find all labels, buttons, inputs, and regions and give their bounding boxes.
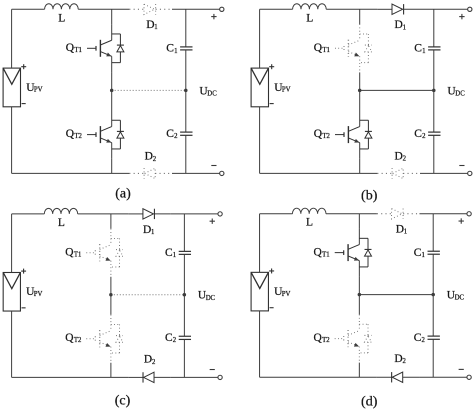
wire right rail lower (b): [433, 135, 435, 173]
capacitor C2 (c): [179, 336, 191, 339]
wire bottom-left (b): [260, 172, 378, 174]
diode D2 (a): [129, 168, 172, 178]
svg-text:L: L: [306, 12, 313, 24]
svg-text:2: 2: [403, 358, 407, 365]
svg-text:L: L: [58, 217, 65, 229]
capacitor C1 (d): [428, 251, 440, 254]
wire top-left (a): [12, 8, 45, 10]
wire left rail upper (c): [11, 214, 13, 273]
output terminal top (b): [468, 7, 472, 11]
transistor Q_T2 with anti-parallel diode (c): [86, 315, 123, 363]
svg-text:(c): (c): [115, 393, 131, 408]
wire left rail lower (c): [11, 311, 13, 377]
wire middle link (b): [360, 89, 434, 91]
transistor Q_T1 with anti-parallel diode (b): [335, 24, 372, 72]
wire top-left (c): [12, 213, 45, 215]
svg-text:T1: T1: [322, 47, 330, 54]
label C1 (c): [165, 247, 176, 259]
label U_PV (b): [274, 82, 290, 94]
inductor L (c): [44, 208, 77, 214]
output plus sign (d): [459, 218, 464, 223]
label U_DC (a): [199, 85, 217, 97]
wire right rail mid (a): [185, 50, 187, 132]
label Q_T2 (d): [313, 332, 330, 344]
svg-text:1: 1: [404, 229, 407, 236]
output terminal top (a): [220, 7, 224, 11]
label Q_T1 (d): [313, 247, 329, 259]
PV minus sign (b): [270, 103, 274, 105]
output terminal top (d): [467, 212, 471, 216]
node dot mid (d): [358, 293, 361, 296]
svg-text:1: 1: [174, 48, 177, 55]
svg-text:D: D: [146, 19, 154, 31]
node dot right U_DC (b): [432, 89, 436, 93]
svg-text:DC: DC: [207, 91, 217, 98]
label C2 (a): [166, 128, 178, 140]
PV minus sign (d): [270, 307, 274, 309]
wire middle link (d): [359, 294, 433, 296]
svg-text:1: 1: [422, 252, 425, 259]
svg-text:PV: PV: [34, 87, 43, 94]
PV plus sign (c): [21, 269, 26, 274]
label D2 (b): [395, 151, 407, 163]
label D2 (c): [144, 354, 155, 366]
PV plus sign (a): [21, 64, 26, 69]
svg-text:Q: Q: [66, 42, 75, 54]
PV plus sign (b): [269, 64, 274, 69]
svg-text:Q: Q: [65, 332, 74, 344]
capacitor C1 (b): [428, 47, 440, 50]
diode D1 (c): [128, 209, 170, 219]
svg-text:1: 1: [403, 24, 406, 31]
PV plus sign (d): [269, 268, 274, 273]
PV minus sign (a): [22, 103, 26, 105]
wire middle rail top (d): [358, 214, 360, 229]
svg-text:T1: T1: [74, 47, 82, 54]
transistor Q_T2 with anti-parallel diode (d): [335, 315, 372, 363]
svg-text:T1: T1: [322, 252, 330, 259]
wire right rail lower (d): [432, 339, 434, 377]
output plus sign (b): [459, 14, 464, 19]
svg-text:D: D: [395, 151, 403, 163]
wire right rail upper (a): [185, 9, 187, 47]
label U_DC (d): [447, 290, 465, 302]
transistor Q_T1 with anti-parallel diode (a): [87, 24, 124, 72]
node dot mid (a): [110, 89, 114, 93]
svg-text:D: D: [144, 354, 152, 366]
PV source U_PV (c): [3, 272, 20, 311]
wire middle rail bottom (a): [111, 159, 113, 174]
wire top-right (b): [420, 8, 468, 10]
diode D2 (d): [377, 372, 420, 382]
node dot right U_DC (a): [184, 89, 188, 93]
output terminal top (c): [218, 212, 222, 216]
label U_PV (c): [26, 286, 42, 298]
node dot mid (c): [109, 293, 112, 296]
capacitor C1 (c): [179, 251, 191, 254]
svg-text:C: C: [414, 128, 422, 140]
svg-text:D: D: [396, 224, 404, 236]
wire left rail lower (d): [259, 311, 261, 377]
inductor L (a): [45, 4, 79, 10]
svg-text:Q: Q: [65, 247, 74, 259]
label C2 (c): [165, 332, 176, 344]
transistor Q_T1 with anti-parallel diode (c): [86, 229, 123, 277]
wire middle rail top (b): [359, 9, 361, 24]
wire bottom-right (a): [172, 172, 220, 174]
svg-text:DC: DC: [206, 295, 216, 302]
svg-text:L: L: [306, 217, 313, 229]
wire right rail upper (c): [183, 214, 185, 251]
svg-text:1: 1: [154, 24, 157, 31]
label C1 (b): [414, 43, 425, 55]
svg-text:L: L: [58, 12, 65, 24]
output minus sign (d): [459, 368, 464, 370]
wire top-right (d): [419, 213, 467, 215]
svg-text:1: 1: [422, 48, 425, 55]
svg-text:T2: T2: [322, 337, 330, 344]
wire middle link (c): [111, 294, 184, 296]
svg-text:T2: T2: [74, 337, 81, 344]
wire middle rail bottom (b): [359, 159, 361, 174]
wire right rail upper (d): [432, 214, 434, 251]
node dot mid (b): [358, 89, 362, 93]
diode D1 (d): [377, 209, 420, 219]
label D1 (b): [395, 19, 407, 31]
label C1 (a): [166, 43, 177, 55]
output terminal bottom (b): [468, 171, 472, 175]
wire right rail mid (c): [183, 254, 185, 336]
svg-text:C: C: [166, 128, 174, 140]
wire right rail lower (c): [183, 339, 185, 377]
svg-text:Q: Q: [66, 128, 75, 140]
diode D2 (b): [377, 168, 420, 178]
PV source U_PV (b): [251, 68, 268, 107]
svg-text:2: 2: [173, 337, 176, 344]
svg-text:2: 2: [422, 337, 426, 344]
svg-text:D: D: [394, 353, 402, 365]
wire top-mid (d): [326, 213, 377, 215]
diode D2 (c): [128, 372, 170, 382]
PV source U_PV (d): [251, 272, 268, 311]
wire top-mid (a): [78, 8, 129, 10]
svg-text:PV: PV: [34, 291, 43, 298]
svg-text:C: C: [165, 247, 173, 259]
PV source U_PV (a): [3, 68, 20, 107]
svg-text:C: C: [414, 43, 422, 55]
output plus sign (a): [211, 14, 216, 19]
svg-text:T2: T2: [322, 133, 330, 140]
svg-text:C: C: [166, 43, 174, 55]
node dot right U_DC (c): [183, 293, 186, 296]
capacitor C2 (d): [428, 336, 440, 339]
label U_PV (a): [26, 82, 42, 94]
transistor Q_T1 with anti-parallel diode (d): [335, 229, 372, 277]
wire middle rail top (a): [111, 9, 113, 24]
label U_DC (c): [198, 290, 216, 302]
wire middle rail bottom (d): [358, 363, 360, 378]
wire left rail upper (d): [259, 214, 261, 273]
label U_PV (d): [274, 286, 290, 298]
wire middle rail bottom (c): [110, 363, 112, 378]
svg-text:2: 2: [403, 156, 407, 163]
label C2 (d): [414, 332, 426, 344]
output minus sign (a): [211, 165, 216, 167]
svg-text:2: 2: [153, 156, 157, 163]
svg-text:T1: T1: [74, 252, 81, 259]
svg-text:T2: T2: [74, 133, 82, 140]
svg-text:C: C: [414, 332, 422, 344]
label Q_T1 (c): [65, 247, 81, 259]
wire bottom-left (a): [12, 172, 130, 174]
capacitor C2 (a): [180, 132, 192, 135]
wire right rail mid (b): [433, 50, 435, 132]
label Q_T2 (c): [65, 332, 81, 344]
wire right rail upper (b): [433, 9, 435, 47]
label U_DC (b): [447, 85, 465, 97]
wire right rail mid (d): [432, 254, 434, 336]
wire top-mid (b): [326, 8, 377, 10]
wire bottom-right (d): [419, 376, 467, 378]
svg-text:1: 1: [151, 229, 154, 236]
PV minus sign (c): [22, 307, 26, 309]
svg-text:(b): (b): [361, 188, 378, 203]
inductor L (d): [292, 208, 325, 214]
label Q_T1 (a): [66, 42, 82, 54]
wire middle rail mid (c): [110, 277, 112, 315]
wire bottom-left (d): [260, 376, 377, 378]
label D1 (d): [396, 224, 407, 236]
svg-text:Q: Q: [314, 42, 323, 54]
wire top-mid (c): [78, 213, 129, 215]
svg-text:1: 1: [173, 252, 176, 259]
wire middle rail mid (d): [358, 277, 360, 315]
output plus sign (c): [210, 218, 215, 223]
transistor Q_T2 with anti-parallel diode (a): [87, 111, 124, 159]
wire left rail upper (b): [259, 9, 261, 68]
wire bottom-right (c): [171, 376, 218, 378]
label D2 (d): [394, 353, 406, 365]
output minus sign (b): [459, 165, 464, 167]
node dot right U_DC (d): [431, 293, 434, 296]
wire middle link (a): [112, 89, 186, 91]
wire top-right (c): [171, 213, 218, 215]
svg-text:2: 2: [152, 359, 155, 366]
diode D1 (b): [377, 4, 420, 14]
wire top-left (b): [260, 8, 293, 10]
svg-text:Q: Q: [314, 128, 323, 140]
wire middle rail mid (a): [111, 72, 113, 110]
wire middle rail top (c): [110, 214, 112, 229]
wire bottom-right (b): [420, 172, 468, 174]
label D1 (a): [146, 19, 158, 31]
svg-text:DC: DC: [455, 295, 465, 302]
label D2 (a): [145, 151, 157, 163]
svg-text:2: 2: [422, 133, 426, 140]
wire left rail lower (b): [259, 107, 261, 174]
diode D1 (a): [129, 4, 172, 14]
capacitor C1 (a): [180, 47, 192, 50]
svg-text:D: D: [145, 151, 153, 163]
wire left rail upper (a): [11, 9, 13, 68]
svg-text:C: C: [414, 247, 422, 259]
wire top-left (d): [260, 213, 293, 215]
label C1 (d): [414, 247, 425, 259]
output minus sign (c): [210, 369, 215, 371]
svg-text:(d): (d): [361, 394, 378, 409]
svg-text:Q: Q: [313, 332, 322, 344]
svg-text:Q: Q: [313, 247, 322, 259]
svg-text:PV: PV: [282, 87, 291, 94]
wire right rail lower (a): [185, 135, 187, 173]
label Q_T2 (b): [314, 128, 331, 140]
output terminal bottom (d): [467, 375, 471, 379]
label D1 (c): [143, 224, 154, 236]
label Q_T1 (b): [314, 42, 330, 54]
svg-text:D: D: [395, 19, 403, 31]
label C2 (b): [414, 128, 426, 140]
wire left rail lower (a): [11, 107, 13, 174]
transistor Q_T2 with anti-parallel diode (b): [335, 111, 372, 159]
wire top-right (a): [172, 8, 220, 10]
output terminal bottom (c): [218, 375, 222, 379]
svg-text:C: C: [165, 332, 173, 344]
capacitor C2 (b): [428, 132, 440, 135]
wire bottom-left (c): [12, 376, 129, 378]
wire middle rail mid (b): [359, 72, 361, 110]
svg-text:(a): (a): [115, 187, 131, 202]
inductor L (b): [293, 4, 327, 10]
svg-text:PV: PV: [282, 291, 291, 298]
svg-text:DC: DC: [455, 91, 465, 98]
svg-text:2: 2: [174, 133, 178, 140]
svg-text:D: D: [143, 224, 151, 236]
label Q_T2 (a): [66, 128, 83, 140]
output terminal bottom (a): [220, 171, 224, 175]
